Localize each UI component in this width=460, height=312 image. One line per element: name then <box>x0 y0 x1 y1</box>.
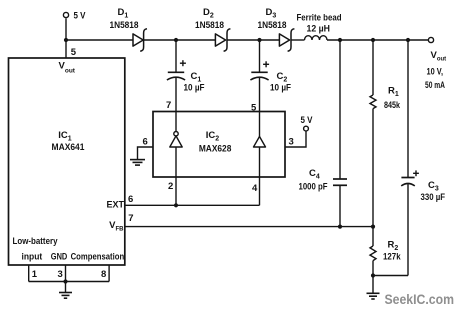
node: C3 tap on top rail <box>406 38 410 42</box>
diode D3 1N5818 <box>258 7 295 51</box>
svg-text:1: 1 <box>32 269 38 280</box>
diode D1 1N5818 <box>110 7 148 51</box>
wire top rail segment: ferrite bead to output terminal <box>327 39 428 41</box>
svg-text:1000 pF: 1000 pF <box>299 182 328 193</box>
svg-text:12 µH: 12 µH <box>307 24 331 35</box>
node: R1/R2/VFB junction <box>371 225 375 229</box>
svg-text:7: 7 <box>128 213 133 224</box>
svg-text:8: 8 <box>101 269 106 280</box>
svg-text:MAX641: MAX641 <box>52 142 86 153</box>
wire: driver output to pin 4 <box>259 147 261 205</box>
wire: inverter output to pin 2 / EXT <box>175 147 177 205</box>
5V input terminal <box>63 11 86 22</box>
svg-text:3: 3 <box>289 136 294 147</box>
wire: IC2 pin 6 to ground <box>138 147 154 160</box>
wire: EXT net from IC1 pin 6 to IC2 pin 4 <box>125 204 260 206</box>
IC1 MAX641 <box>9 58 125 265</box>
svg-text:1N5818: 1N5818 <box>110 20 139 31</box>
inverting driver (IC2 left) <box>170 132 182 148</box>
node B: D2/D3/C2 junction <box>257 38 261 42</box>
svg-text:5 V: 5 V <box>301 115 314 126</box>
non-inverting driver (IC2 right) <box>254 137 266 148</box>
svg-text:5: 5 <box>71 47 77 58</box>
svg-text:7: 7 <box>166 100 171 111</box>
capacitor C3 330uF <box>401 40 445 276</box>
svg-text:EXT: EXT <box>107 200 125 211</box>
svg-text:SeekIC.com: SeekIC.com <box>385 292 455 307</box>
resistor R1 845k <box>370 40 401 227</box>
svg-text:10 µF: 10 µF <box>184 83 205 94</box>
svg-text:1N5818: 1N5818 <box>195 20 224 31</box>
ground (under R2) <box>367 276 380 300</box>
node: C4 bottom on VFB net <box>338 225 342 229</box>
svg-text:2: 2 <box>168 181 173 192</box>
node: EXT / pin 2 junction <box>174 203 178 207</box>
svg-text:10 V,: 10 V, <box>427 66 444 77</box>
resistor R2 127k <box>370 227 401 276</box>
svg-text:3: 3 <box>58 269 63 280</box>
svg-text:6: 6 <box>128 194 133 205</box>
capacitor C2 10uF <box>250 40 291 94</box>
svg-text:127k: 127k <box>383 252 401 263</box>
svg-text:5 V: 5 V <box>74 11 87 22</box>
svg-text:330 µF: 330 µF <box>421 192 446 203</box>
node: 5V junction on top rail <box>64 38 68 42</box>
svg-text:Low-battery: Low-battery <box>13 236 59 247</box>
wire top rail segment: D1 to D2 <box>144 39 216 41</box>
wire: C2 to IC2 pin 5 <box>259 78 261 137</box>
inductor L1 ferrite bead 12uH <box>297 12 342 40</box>
5V terminal (IC2 pin 3) <box>301 115 314 131</box>
wire: C1 to IC2 pin 7 <box>175 78 177 132</box>
svg-text:6: 6 <box>143 136 148 147</box>
svg-text:input: input <box>22 252 43 263</box>
svg-text:5: 5 <box>251 103 257 114</box>
svg-text:4: 4 <box>252 183 258 194</box>
IC2 MAX628 <box>153 112 285 178</box>
svg-text:Ferrite bead: Ferrite bead <box>297 12 342 23</box>
diode D2 1N5818 <box>195 7 230 51</box>
wire: IC2 pin 3 to 5V terminal <box>285 131 306 147</box>
IC1 bottom pin tabs 1, 3, 8 <box>29 265 109 282</box>
node A: D1/D2/C1 junction <box>174 38 178 42</box>
node: R1 tap on top rail <box>371 38 375 42</box>
wire top rail segment: D3 to ferrite bead <box>291 39 305 41</box>
Vout output terminal <box>425 37 446 90</box>
wire top rail segment: 5V node to D1 <box>66 39 133 41</box>
wire: C3 bottom to R2 bottom <box>373 275 408 277</box>
svg-text:1N5818: 1N5818 <box>258 20 287 31</box>
svg-text:GND: GND <box>51 252 68 263</box>
svg-text:845k: 845k <box>384 100 401 111</box>
svg-text:MAX628: MAX628 <box>199 144 232 155</box>
wire: VFB net from IC1 pin 7 to R1/R2 junction <box>125 226 373 228</box>
svg-text:Compensation: Compensation <box>71 252 125 263</box>
wire: 5V terminal down to rail and IC1 pin 5 <box>65 18 67 58</box>
node: C4 tap on top rail <box>338 38 342 42</box>
node: R2/C3/ground junction <box>371 273 375 277</box>
ground (IC2 pin 6) <box>130 160 145 166</box>
capacitor C1 10uF <box>167 40 205 94</box>
svg-text:10 µF: 10 µF <box>270 83 291 94</box>
svg-text:50 mA: 50 mA <box>425 80 445 91</box>
wire top rail segment: D2 to D3 <box>227 39 279 41</box>
node: IC1 pins common junction <box>63 279 67 283</box>
capacitor C4 1000pF <box>299 40 348 227</box>
ground (under IC1 pin 3) <box>59 282 72 299</box>
